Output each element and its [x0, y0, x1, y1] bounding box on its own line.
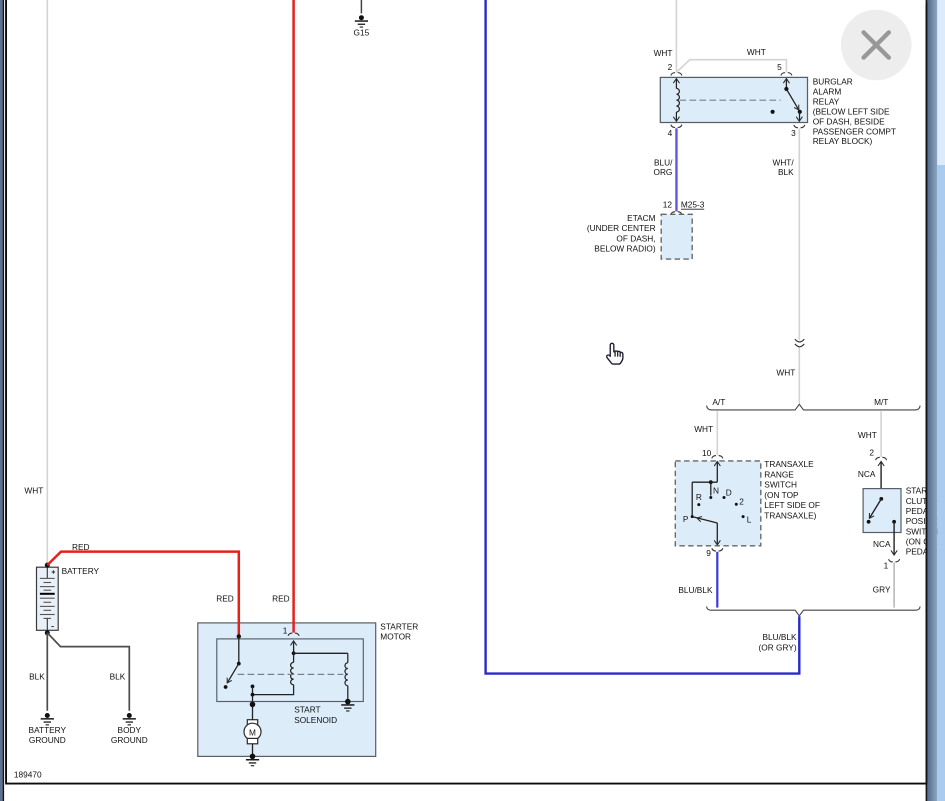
clutch switch common dot — [879, 497, 883, 501]
svg-text:L: L — [747, 514, 752, 524]
relay switch common dot — [784, 87, 788, 91]
svg-text:ALARM: ALARM — [813, 87, 842, 97]
battery negative junction dot — [45, 630, 50, 635]
svg-text:1: 1 — [884, 560, 889, 570]
left page edge black line — [3, 0, 5, 801]
wire GRY — [893, 563, 895, 608]
pin 4 connector arc — [671, 125, 682, 128]
top options brace A/T M/T — [707, 404, 921, 410]
transaxle label text — [764, 459, 820, 520]
contact dot 2 — [735, 503, 738, 506]
svg-text:189470: 189470 — [14, 769, 42, 779]
svg-text:2: 2 — [668, 62, 673, 72]
svg-text:ETACM: ETACM — [627, 213, 656, 223]
clutch switch arm — [869, 499, 881, 518]
svg-text:12: 12 — [663, 200, 673, 210]
svg-text:WHT: WHT — [747, 47, 766, 57]
motor ground — [246, 754, 259, 767]
svg-text:WHT: WHT — [858, 430, 877, 440]
motor feed line — [252, 686, 254, 720]
starter motor M1 outer box — [198, 623, 376, 757]
pin 3 connector arc — [794, 125, 805, 128]
wire BLK battery ground — [46, 633, 48, 711]
svg-text:10: 10 — [702, 448, 712, 458]
battery plates — [40, 578, 55, 618]
svg-text:WHT: WHT — [776, 368, 795, 378]
battery plus mark — [52, 570, 56, 574]
switch feed horizontal — [692, 481, 717, 483]
junction dot — [709, 480, 713, 484]
contact dot D — [723, 496, 726, 499]
svg-text:3: 3 — [791, 128, 796, 138]
hold-in coil — [347, 653, 349, 662]
wire BLU/BLK transaxle — [716, 552, 718, 608]
svg-text:WHT: WHT — [654, 48, 673, 58]
svg-text:(UNDER CENTER: (UNDER CENTER — [587, 223, 656, 233]
pin 4 arrow — [675, 112, 677, 121]
svg-text:RED: RED — [72, 542, 90, 552]
contact dot R — [697, 503, 700, 506]
transaxle range switch S1 box — [675, 461, 761, 546]
clutch switch lead arrow — [878, 461, 884, 466]
svg-text:P: P — [683, 514, 689, 524]
motor ground lead — [252, 744, 254, 755]
wire RED battery to solenoid — [47, 552, 239, 636]
svg-text:SWITCH: SWITCH — [764, 480, 797, 490]
relay K1 box BURGLAR ALARM RELAY — [660, 77, 807, 122]
close button — [841, 10, 912, 81]
wire WHT relay branch to pin 5 — [676, 60, 786, 73]
svg-text:GROUND: GROUND — [29, 735, 66, 745]
svg-text:D: D — [726, 487, 732, 497]
relay switch arm — [786, 89, 799, 111]
pin 10 arrow — [714, 462, 720, 467]
svg-text:2: 2 — [739, 497, 744, 507]
svg-text:OF DASH, BESIDE: OF DASH, BESIDE — [813, 117, 885, 127]
svg-text:BLK: BLK — [778, 167, 794, 177]
relay coil — [676, 88, 679, 112]
motor M symbol — [247, 720, 257, 725]
pin 2 connector arc clutch — [876, 457, 887, 460]
svg-text:BATTERY: BATTERY — [62, 566, 100, 576]
pin 9 connector arc — [712, 548, 723, 551]
feed down to P — [691, 482, 693, 516]
clutch contact dot left — [867, 520, 871, 524]
svg-text:N: N — [713, 485, 719, 495]
svg-text:STARTER: STARTER — [380, 621, 418, 631]
contact dot L — [742, 515, 745, 518]
start clutch pedal position switch S2 box — [863, 489, 901, 533]
wire WHT battery feed (left vertical) — [46, 0, 48, 564]
wiper arm P to pin9 — [692, 517, 717, 523]
battery internal stub bottom — [46, 618, 48, 630]
svg-text:(OR GRY): (OR GRY) — [758, 643, 796, 653]
pin 10 connector arc — [712, 456, 723, 459]
ETACM U1 box — [661, 214, 692, 259]
svg-text:(ON TOP: (ON TOP — [764, 490, 799, 500]
svg-text:RANGE: RANGE — [764, 469, 794, 479]
svg-text:1: 1 — [283, 626, 288, 636]
svg-text:TRANSAXLE): TRANSAXLE) — [764, 510, 816, 520]
svg-text:OF DASH,: OF DASH, — [616, 233, 655, 243]
link to hold-in coil — [294, 652, 348, 654]
pin 3 arrow — [799, 112, 801, 121]
battery positive junction dot — [45, 563, 50, 568]
wire WHT M/T branch — [880, 411, 882, 457]
svg-text:MOTOR: MOTOR — [380, 632, 411, 642]
pull-in coil — [293, 653, 295, 662]
main contact feed dot — [237, 634, 241, 638]
ground BATTERY GROUND — [29, 713, 67, 745]
starter inner solenoid box — [217, 639, 363, 702]
svg-text:M25-3: M25-3 — [681, 200, 705, 210]
ground G15 — [354, 0, 370, 38]
scrollbar track — [937, 0, 945, 165]
clutch contact dot right — [892, 520, 896, 524]
clutch lower lead — [893, 522, 895, 554]
motor feed contact dot — [251, 685, 255, 689]
main switch lead — [238, 636, 240, 663]
inner box pass-through dot — [250, 702, 256, 708]
wire WHT relay feed vertical — [675, 0, 677, 72]
svg-text:BELOW RADIO): BELOW RADIO) — [594, 244, 656, 254]
svg-text:BLK: BLK — [110, 671, 126, 681]
pin 1 connector arc clutch — [889, 559, 900, 562]
bottom merge brace — [707, 606, 921, 615]
svg-text:G15: G15 — [354, 28, 370, 38]
svg-text:GRY: GRY — [873, 584, 891, 594]
main switch pivot dot — [237, 662, 241, 666]
relay internal dashed link — [680, 99, 781, 101]
svg-text:R: R — [696, 492, 702, 502]
pin 5 arrow — [783, 79, 789, 84]
svg-text:M/T: M/T — [874, 397, 888, 407]
solenoid internal dashed link — [238, 673, 344, 675]
relay label text — [813, 76, 896, 146]
svg-text:9: 9 — [706, 548, 711, 558]
svg-text:(BELOW LEFT SIDE: (BELOW LEFT SIDE — [813, 107, 890, 117]
wire BLU/BLK (OR GRY) run — [486, 0, 800, 674]
main switch arm — [227, 664, 239, 683]
svg-text:2: 2 — [869, 447, 874, 457]
clutch switch text — [906, 486, 945, 557]
solenoid junction dot — [292, 651, 296, 655]
svg-text:BLU/BLK: BLU/BLK — [678, 585, 713, 595]
svg-text:RED: RED — [272, 594, 290, 604]
svg-text:WHT: WHT — [694, 424, 713, 434]
battery B1 box — [37, 567, 59, 630]
svg-text:4: 4 — [668, 128, 673, 138]
pin 1 arrow starter — [291, 641, 297, 646]
svg-text:PASSENGER COMPT: PASSENGER COMPT — [813, 126, 896, 136]
svg-text:GROUND: GROUND — [111, 735, 148, 745]
right page edge black line — [926, 0, 928, 801]
pin 2 arrow — [673, 79, 679, 84]
battery internal stub top — [46, 567, 48, 578]
relay switch contact dot pin3 — [798, 110, 802, 114]
svg-text:ORG: ORG — [653, 167, 672, 177]
pin 9 arrow — [716, 523, 718, 544]
svg-text:RELAY: RELAY — [813, 97, 840, 107]
stub to N contact — [710, 482, 712, 495]
wire WHT A/T branch — [716, 411, 718, 455]
pin 1 connector arc starter — [288, 633, 299, 636]
svg-text:A/T: A/T — [712, 397, 725, 407]
relay unused contact dot — [771, 110, 775, 114]
svg-text:5: 5 — [777, 62, 782, 72]
main switch contact dot — [224, 685, 228, 689]
svg-text:BODY: BODY — [118, 725, 142, 735]
inline connector break symbol — [795, 339, 804, 342]
ground BODY GROUND — [111, 713, 148, 745]
mouse cursor (hand pointer) — [607, 343, 623, 364]
svg-text:BATTERY: BATTERY — [29, 725, 67, 735]
pin 12 connector arc — [671, 212, 682, 215]
left page edge slate strip — [0, 0, 3, 801]
pin 5 connector arc — [781, 73, 792, 76]
wire RED ignition feed (long vertical) — [292, 0, 295, 633]
svg-text:NCA: NCA — [858, 469, 876, 479]
svg-text:TRANSAXLE: TRANSAXLE — [764, 459, 814, 469]
svg-text:BLU/BLK: BLU/BLK — [762, 632, 797, 642]
ETACM label text — [587, 213, 656, 254]
svg-text:RED: RED — [216, 594, 234, 604]
svg-text:SOLENOID: SOLENOID — [294, 715, 337, 725]
svg-text:WHT: WHT — [24, 485, 43, 495]
svg-text:NCA: NCA — [873, 539, 891, 549]
battery minus mark — [51, 626, 54, 628]
wire BLK body ground — [47, 633, 129, 711]
solenoid ground — [341, 699, 354, 712]
svg-text:START: START — [294, 704, 320, 714]
coil return junction dot — [251, 693, 255, 697]
wire WHT/BLK relay pin3 down — [798, 129, 800, 341]
contact dot P — [691, 515, 694, 518]
svg-text:RELAY BLOCK): RELAY BLOCK) — [813, 136, 873, 146]
svg-text:LEFT SIDE OF: LEFT SIDE OF — [764, 500, 820, 510]
contact dot N — [709, 496, 712, 499]
wire BLU/ORG relay pin4 to ETACM — [675, 128, 677, 211]
svg-text:BLK: BLK — [29, 671, 45, 681]
wire BLU/ORG orange stripe — [677, 128, 679, 211]
svg-text:M: M — [249, 728, 256, 738]
pin 2 connector arc — [671, 73, 682, 76]
scrollbar thumb — [937, 165, 945, 801]
svg-text:BURGLAR: BURGLAR — [813, 76, 853, 86]
